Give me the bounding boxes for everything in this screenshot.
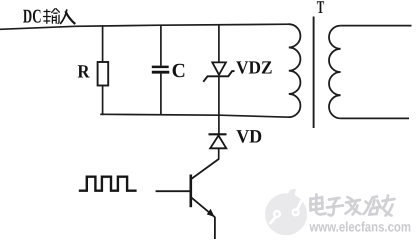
transformer T primary winding	[289, 24, 301, 117]
wire top DC rail	[0, 24, 290, 29]
diode VD triangle	[210, 136, 226, 149]
svg-text:T: T	[317, 0, 325, 17]
wire resistor branch top	[102, 25, 104, 62]
svg-text:DC: DC	[23, 7, 42, 28]
transistor Q base bar	[190, 175, 193, 208]
transistor Q emitter lead	[191, 198, 215, 218]
transformer core	[313, 17, 315, 129]
svg-text:VDZ: VDZ	[236, 59, 273, 79]
svg-text:www.elecfans.com: www.elecfans.com	[309, 220, 411, 235]
svg-text:C: C	[172, 60, 186, 82]
transistor Q collector lead	[191, 159, 219, 179]
transistor Q base lead	[156, 190, 191, 192]
zener diode VDZ bar with hooks	[203, 71, 234, 82]
resistor R	[98, 62, 109, 86]
zener diode VDZ triangle	[212, 62, 226, 74]
watermark text dianzifashaoyou (drawn)	[310, 195, 395, 216]
wire secondary bottom lead	[341, 117, 409, 119]
wire capacitor branch bottom	[160, 74, 162, 116]
label DC input: hanzi shu (drawn)	[43, 8, 60, 23]
diode VD cathode bar	[209, 133, 227, 135]
wire resistor branch bottom	[102, 86, 104, 116]
wire secondary top lead	[341, 25, 412, 27]
wire zener branch bottom	[218, 76, 220, 115]
capacitor C plate bottom	[152, 71, 170, 74]
wire zener to diode VD	[218, 115, 220, 134]
transistor Q emitter arrow	[207, 209, 215, 217]
svg-text:VD: VD	[236, 127, 262, 148]
wire emitter down	[214, 217, 216, 239]
watermark logo circle	[265, 189, 307, 235]
square wave drive signal	[79, 177, 137, 191]
wire capacitor branch top	[160, 25, 162, 66]
label DC input: hanzi ru (drawn)	[60, 9, 75, 24]
capacitor C plate top	[152, 66, 169, 69]
wire bottom rail	[100, 114, 289, 117]
transformer T secondary winding	[329, 26, 341, 119]
wire zener branch top	[218, 25, 220, 63]
wire diode VD to collector	[218, 148, 220, 159]
svg-text:R: R	[77, 61, 90, 82]
